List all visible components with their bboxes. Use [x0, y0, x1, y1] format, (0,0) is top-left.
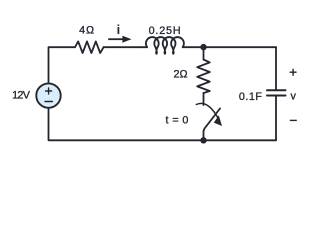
inductor L 0.25H [146, 37, 184, 54]
node dot bottom [200, 137, 206, 143]
voltage source V1 12V [36, 83, 60, 107]
minus mark of v [290, 119, 297, 121]
svg-text:0.1F: 0.1F [239, 91, 263, 103]
svg-text:v: v [290, 91, 296, 103]
switch arrowhead [214, 115, 222, 126]
svg-text:0.25H: 0.25H [149, 25, 182, 37]
wire right down to capacitor [275, 47, 277, 90]
wire to inductor [140, 46, 147, 48]
wire top-left [49, 47, 76, 84]
svg-text:i: i [117, 22, 121, 37]
resistor R 2ohm vertical [197, 60, 210, 94]
switch blade [204, 109, 221, 141]
resistor R 4ohm [75, 41, 104, 53]
node dot top [200, 44, 206, 50]
svg-text:2Ω: 2Ω [174, 68, 188, 80]
svg-text:4Ω: 4Ω [79, 24, 95, 36]
wire top-middle [104, 46, 140, 48]
svg-text:12V: 12V [12, 90, 31, 102]
wire capacitor to bottom-right [275, 96, 277, 141]
wire middle branch from top node [203, 47, 205, 59]
plus mark of v [290, 69, 297, 76]
wire inductor to top-right corner [183, 46, 276, 48]
svg-text:t = 0: t = 0 [166, 115, 189, 127]
capacitor C 0.1F plates [267, 90, 286, 95]
current arrow i [108, 38, 123, 40]
wire resistor to switch [203, 93, 205, 105]
switch motion arc [196, 103, 218, 118]
wire bottom rail [49, 107, 277, 140]
minus sign inside source [45, 101, 52, 103]
plus sign inside source [46, 88, 52, 94]
